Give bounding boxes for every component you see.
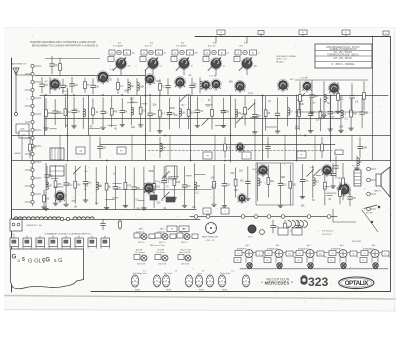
svg-text:1K: 1K xyxy=(113,174,116,176)
svg-text:105V: 105V xyxy=(252,169,257,171)
wire xyxy=(205,104,212,106)
adjust arrow xyxy=(180,94,187,101)
capacitor A27 xyxy=(308,98,313,133)
svg-text:240V: 240V xyxy=(62,91,67,93)
tube V10 xyxy=(235,142,244,152)
resistor A6 xyxy=(92,99,95,125)
title RECEPTEUR MERCEDES xyxy=(261,277,293,285)
svg-text:323: 323 xyxy=(308,275,329,289)
tuning unit B.3 xyxy=(171,43,199,75)
capacitor E77 xyxy=(350,84,355,110)
capacitor B37 xyxy=(266,137,271,158)
svg-text:12K: 12K xyxy=(131,127,136,129)
grid wire xyxy=(35,75,145,77)
tube V14 xyxy=(237,193,246,203)
capacitor C41 xyxy=(296,220,305,233)
wire xyxy=(184,118,190,120)
resistor E76 xyxy=(336,83,343,114)
capacitor C44 xyxy=(83,165,92,202)
chassis outline xyxy=(11,249,84,289)
resistor C61 xyxy=(267,165,275,197)
detector cluster box xyxy=(256,163,293,205)
svg-text:574 KC/S: 574 KC/S xyxy=(137,264,146,266)
wire xyxy=(215,124,226,126)
svg-text:HAUT PARLEUR: HAUT PARLEUR xyxy=(202,235,218,238)
svg-text:AJ: AJ xyxy=(252,51,254,54)
capacitor C40 xyxy=(271,220,280,233)
svg-text:12K: 12K xyxy=(48,186,53,188)
tube V6 xyxy=(277,79,288,92)
terminal xyxy=(60,217,63,220)
svg-text:T. 1e MF: T. 1e MF xyxy=(209,76,218,78)
svg-text:AJ5.PB: AJ5.PB xyxy=(136,249,143,252)
tube V9 xyxy=(143,182,154,194)
capacitor A7 xyxy=(101,98,108,130)
coil D70 xyxy=(355,156,362,170)
wire xyxy=(332,209,334,222)
adjust arrow xyxy=(162,192,169,199)
alignment rail wire xyxy=(237,252,388,254)
adjust arrow xyxy=(236,116,243,123)
push button 3 xyxy=(36,236,44,249)
junction xyxy=(330,95,332,97)
svg-text:2K2: 2K2 xyxy=(156,186,161,188)
output transformer T.S xyxy=(354,170,361,186)
terminal xyxy=(66,217,69,220)
resistor F85 xyxy=(84,78,90,93)
resistor A31 xyxy=(349,99,358,130)
svg-text:5K: 5K xyxy=(326,98,329,100)
alignment group Aj.1 xyxy=(234,244,266,268)
alignment bottom wire xyxy=(240,268,388,270)
wire xyxy=(52,112,63,114)
wire xyxy=(284,135,286,160)
svg-text:AJ: AJ xyxy=(126,51,128,54)
terminal xyxy=(281,215,285,219)
svg-text:47K: 47K xyxy=(199,111,204,113)
svg-text:6K8: 6K8 xyxy=(324,257,327,259)
svg-text:10K: 10K xyxy=(221,112,226,114)
svg-text:2M2: 2M2 xyxy=(254,66,258,68)
HT bus wire xyxy=(40,95,388,97)
resistor A11 xyxy=(138,96,146,127)
svg-text:95V: 95V xyxy=(155,181,159,183)
svg-text:2M2: 2M2 xyxy=(281,177,286,179)
svg-text:1M: 1M xyxy=(74,206,77,208)
wire xyxy=(170,176,179,178)
svg-text:6K8: 6K8 xyxy=(190,113,195,115)
coil B35 xyxy=(160,137,166,158)
resistor A28 xyxy=(319,98,327,131)
wire xyxy=(131,135,133,160)
coil F128 xyxy=(128,79,134,94)
coil C40 xyxy=(44,163,53,210)
svg-text:100: 100 xyxy=(74,85,79,87)
svg-text:PM 84: PM 84 xyxy=(166,290,171,292)
svg-text:çG: çG xyxy=(42,258,50,264)
wire xyxy=(138,199,144,201)
capacitor F168 xyxy=(166,79,171,95)
capacitor C47 xyxy=(113,166,122,209)
push button 7 xyxy=(88,236,96,249)
svg-text:20n: 20n xyxy=(314,96,319,98)
svg-text:PO: PO xyxy=(120,150,123,152)
oscillator coil L1 xyxy=(50,148,64,160)
coil E75 xyxy=(322,81,329,117)
terminal xyxy=(267,215,271,219)
wire xyxy=(230,95,232,162)
tube V13 xyxy=(321,164,332,177)
svg-text:G GL: G GL xyxy=(28,259,43,265)
wire xyxy=(316,175,320,177)
switch box W xyxy=(297,151,306,158)
resistor R2 xyxy=(59,58,62,76)
resistor A1 xyxy=(44,98,53,130)
wire xyxy=(115,189,212,191)
wire xyxy=(67,88,69,160)
capacitor B39 xyxy=(358,137,368,158)
svg-text:BOBINA GO: BOBINA GO xyxy=(298,247,309,250)
svg-text:AJ: AJ xyxy=(221,51,223,54)
resistor C48 xyxy=(123,166,132,208)
capacitor A32 xyxy=(360,98,369,128)
wire xyxy=(145,70,147,160)
resistor A13 xyxy=(157,96,165,133)
terminal xyxy=(254,215,258,219)
wire xyxy=(330,95,332,162)
wire xyxy=(54,186,63,188)
resistor D71 xyxy=(339,182,345,204)
IF trimmer MF.2 xyxy=(155,229,176,244)
svg-text:0,1: 0,1 xyxy=(223,66,226,68)
tube socket diagram T.4 xyxy=(218,271,250,292)
mains switch xyxy=(352,210,378,243)
svg-text:PM 84: PM 84 xyxy=(135,290,140,292)
tube T.MF1 xyxy=(211,79,221,91)
resistor E73 xyxy=(299,81,302,114)
phono switch box 2 xyxy=(221,208,229,214)
push button 8 xyxy=(101,236,109,249)
svg-text:50K: 50K xyxy=(229,82,234,84)
wire xyxy=(169,135,171,160)
svg-text:AJ: AJ xyxy=(331,259,333,262)
svg-text:BL: BL xyxy=(171,229,173,231)
coil A30 xyxy=(339,98,347,132)
tube V1 xyxy=(49,78,60,91)
svg-text:30p: 30p xyxy=(54,65,59,67)
tube V2 xyxy=(97,71,109,85)
tube V12 output xyxy=(338,183,351,197)
svg-text:85V: 85V xyxy=(290,79,294,81)
svg-text:5n: 5n xyxy=(357,257,359,259)
junction xyxy=(330,135,332,137)
label pile secteur xyxy=(322,230,334,237)
wire xyxy=(262,95,264,160)
coil F200 xyxy=(200,77,202,93)
schematic right border wire xyxy=(390,37,392,292)
capacitor A24 xyxy=(275,98,280,133)
alignment group Aj.3 xyxy=(295,244,327,268)
coil A20 xyxy=(235,99,241,128)
capacitor A14 xyxy=(167,98,176,129)
svg-text:50K: 50K xyxy=(353,113,358,115)
svg-text:FA ( AJ. ): FA ( AJ. ) xyxy=(276,60,284,63)
tube V4 xyxy=(174,76,185,89)
adjust arrow xyxy=(298,93,305,100)
coil A5 xyxy=(83,97,85,128)
svg-text:1K: 1K xyxy=(267,113,270,115)
svg-text:T: T xyxy=(110,59,111,61)
junction xyxy=(262,95,264,97)
terminal column xyxy=(367,167,376,211)
svg-text:30p: 30p xyxy=(130,86,135,88)
coil C45 xyxy=(96,167,102,204)
dark box 1 xyxy=(150,195,157,200)
svg-text:250V: 250V xyxy=(248,93,253,95)
resistor R51 xyxy=(119,219,122,230)
wire xyxy=(59,135,61,160)
tiny box xyxy=(335,150,343,155)
resistor A23 xyxy=(264,96,270,130)
adjust arrow xyxy=(162,171,169,178)
coil L2 xyxy=(50,166,64,176)
bus wire 144 xyxy=(100,144,335,146)
svg-text:5K: 5K xyxy=(312,200,315,202)
svg-text:1M: 1M xyxy=(342,193,345,195)
shield box 1 xyxy=(167,226,177,232)
capacitor C50 xyxy=(101,219,106,230)
svg-text:47K: 47K xyxy=(72,201,77,203)
resistor A16 xyxy=(187,97,195,129)
coil C60 xyxy=(258,163,263,201)
junction xyxy=(304,135,306,137)
resistor C51 xyxy=(153,165,161,208)
resistor B33 xyxy=(29,137,37,158)
resistor A18 xyxy=(211,96,214,129)
wire xyxy=(89,128,100,130)
resistor F160 xyxy=(159,79,165,94)
svg-text:455 KC: 455 KC xyxy=(181,242,188,244)
switch contact column xyxy=(25,64,41,206)
capacitor D67 xyxy=(334,156,339,178)
svg-text:ACC GO: ACC GO xyxy=(208,44,216,47)
wire xyxy=(372,36,374,160)
svg-text:T: T xyxy=(142,59,143,61)
svg-text:TENSIONS MESUREES AVEC VOLTMET: TENSIONS MESUREES AVEC VOLTMETRE A LAMPE… xyxy=(30,41,97,44)
svg-text:6,3V: 6,3V xyxy=(110,69,115,71)
wire xyxy=(141,103,147,105)
svg-text:30p: 30p xyxy=(132,53,135,55)
svg-text:25u: 25u xyxy=(128,66,131,68)
capacitor C57 xyxy=(222,164,231,208)
svg-text:500K: 500K xyxy=(139,86,145,88)
wire xyxy=(51,178,58,180)
resistor D68 xyxy=(342,163,345,200)
svg-text:455 KC: 455 KC xyxy=(138,242,145,244)
switch box C xyxy=(242,152,251,159)
svg-text:5K: 5K xyxy=(194,86,197,88)
switch box F xyxy=(203,152,212,159)
capacitor C42 xyxy=(64,164,71,207)
antenna trimmer box top 1 xyxy=(217,30,225,35)
junction xyxy=(67,135,69,137)
cadre coil L5 xyxy=(48,217,61,219)
wire xyxy=(326,192,336,194)
push button 4 xyxy=(49,236,57,249)
resistor C43 xyxy=(74,166,80,203)
wire xyxy=(295,79,368,81)
capacitor C64 xyxy=(300,164,309,198)
coil F50 xyxy=(50,77,52,94)
junction xyxy=(296,160,298,162)
note voltage measurement text xyxy=(30,41,98,48)
wire xyxy=(45,58,100,60)
svg-text:10K: 10K xyxy=(152,114,157,116)
capacitor A17 xyxy=(195,97,204,128)
adjust arrow xyxy=(307,169,314,176)
wire xyxy=(105,198,114,200)
svg-text:0,8V: 0,8V xyxy=(310,167,315,169)
svg-text:10K: 10K xyxy=(301,205,306,207)
wire antenna to switch xyxy=(16,74,31,76)
svg-text:PO CADRE: PO CADRE xyxy=(113,44,124,47)
tube T.MF2 xyxy=(302,81,312,92)
svg-text:AJ: AJ xyxy=(363,259,365,262)
bus wire 160 xyxy=(12,160,390,162)
capacitor F42 xyxy=(40,77,49,93)
coil C55 xyxy=(194,164,200,209)
capacitor A12 xyxy=(148,97,157,132)
svg-text:+ POL. LP: + POL. LP xyxy=(205,240,215,242)
svg-text:12K: 12K xyxy=(352,198,357,200)
cadre coil L6 xyxy=(73,217,94,219)
svg-text:47K: 47K xyxy=(127,186,132,188)
top bus wire xyxy=(195,36,390,38)
svg-text:1,5V: 1,5V xyxy=(68,185,73,187)
svg-text:6K8: 6K8 xyxy=(257,115,262,117)
svg-text:2K2: 2K2 xyxy=(186,186,191,188)
coil F137 xyxy=(137,78,145,94)
wire xyxy=(324,186,329,188)
wire xyxy=(44,95,46,135)
svg-text:P.U.: P.U. xyxy=(11,234,15,236)
svg-text:Noir Verte: Noir Verte xyxy=(164,272,172,275)
svg-text:AJ: AJ xyxy=(189,51,191,54)
push button 6 xyxy=(75,236,83,249)
adjust arrow xyxy=(313,169,320,176)
capacitor C59 xyxy=(245,167,250,201)
switch INT HP xyxy=(364,205,380,215)
wire xyxy=(241,113,246,115)
svg-text:THERMOCOUPLAGE : 455 KC: THERMOCOUPLAGE : 455 KC xyxy=(327,54,359,57)
info box cadre reglages xyxy=(315,44,372,68)
svg-text:10K: 10K xyxy=(181,112,186,114)
wire xyxy=(88,95,90,135)
svg-text:220: 220 xyxy=(288,253,291,255)
svg-text:1M: 1M xyxy=(124,111,127,113)
tuning unit B.1 xyxy=(108,43,135,75)
capacitor C54 xyxy=(182,166,191,207)
coil C50 xyxy=(141,167,148,210)
antenna trimmer box top 5 xyxy=(383,31,389,35)
svg-text:500K: 500K xyxy=(149,171,155,173)
pickup connector PU xyxy=(10,219,22,236)
junction xyxy=(106,160,108,162)
svg-text:50K: 50K xyxy=(124,90,129,92)
svg-text:5: 5 xyxy=(22,257,25,263)
wire xyxy=(112,197,118,199)
capacitor E74 xyxy=(310,80,319,114)
svg-text:0,1: 0,1 xyxy=(160,66,163,68)
coil A15 xyxy=(179,97,185,128)
svg-text:330: 330 xyxy=(95,86,100,88)
antenna xyxy=(13,68,19,116)
antenna trimmer box top 4 xyxy=(342,30,350,35)
cadre coil L4 xyxy=(31,217,48,219)
svg-text:PU: PU xyxy=(30,167,33,169)
wire xyxy=(295,128,299,130)
svg-text:T: T xyxy=(236,59,237,61)
terminal xyxy=(307,215,311,219)
magic eye tube xyxy=(202,223,218,242)
capacitor F192 xyxy=(190,78,197,95)
svg-text:CADRE PO - GO: CADRE PO - GO xyxy=(26,224,42,227)
wire xyxy=(50,128,57,130)
resistor A21 xyxy=(244,97,247,126)
dark box 2 xyxy=(166,197,175,202)
tube V7 xyxy=(328,82,339,95)
capacitor A9 xyxy=(120,98,127,126)
push button 2 xyxy=(23,236,31,249)
switch box CA xyxy=(76,147,85,154)
IF trimmer MF.3 xyxy=(177,229,198,244)
svg-text:AJ: AJ xyxy=(158,51,160,54)
terminal xyxy=(327,215,331,219)
bus wire 135 xyxy=(12,135,390,137)
oscillator trimmer CV1.PM xyxy=(155,250,168,266)
resistor A26 xyxy=(298,96,301,130)
wire xyxy=(190,95,192,160)
svg-text:“ MERCEDES ”: “ MERCEDES ” xyxy=(261,281,293,286)
svg-text:12K: 12K xyxy=(102,147,107,149)
bus wire 209 xyxy=(12,209,196,211)
IF trimmer MF.1 xyxy=(134,229,155,244)
phono switch box 1 xyxy=(203,208,211,214)
capacitor C62 xyxy=(278,164,287,208)
svg-text:2K2: 2K2 xyxy=(32,147,37,149)
box B.AT xyxy=(16,124,29,133)
svg-text:6K8: 6K8 xyxy=(97,80,102,82)
capacitor A4 xyxy=(72,97,81,128)
filter box outline xyxy=(166,166,177,179)
svg-text:220: 220 xyxy=(226,185,231,187)
capacitor D72 xyxy=(331,163,336,188)
svg-text:CES GARS POSTALE: CES GARS POSTALE xyxy=(276,55,297,58)
svg-text:47K: 47K xyxy=(114,112,119,114)
svg-text:50K: 50K xyxy=(300,104,305,106)
svg-text:OSC: OSC xyxy=(239,45,244,47)
capacitor F63 xyxy=(61,79,68,94)
screen bus wire xyxy=(45,118,340,120)
resistor B36 xyxy=(224,137,231,158)
front-end text block xyxy=(276,55,297,64)
svg-text:CA: CA xyxy=(79,149,83,152)
capacitor A29 xyxy=(328,97,336,132)
wire xyxy=(296,95,298,160)
wire xyxy=(89,135,91,160)
resistor C53 xyxy=(172,166,181,200)
junction xyxy=(190,160,192,162)
